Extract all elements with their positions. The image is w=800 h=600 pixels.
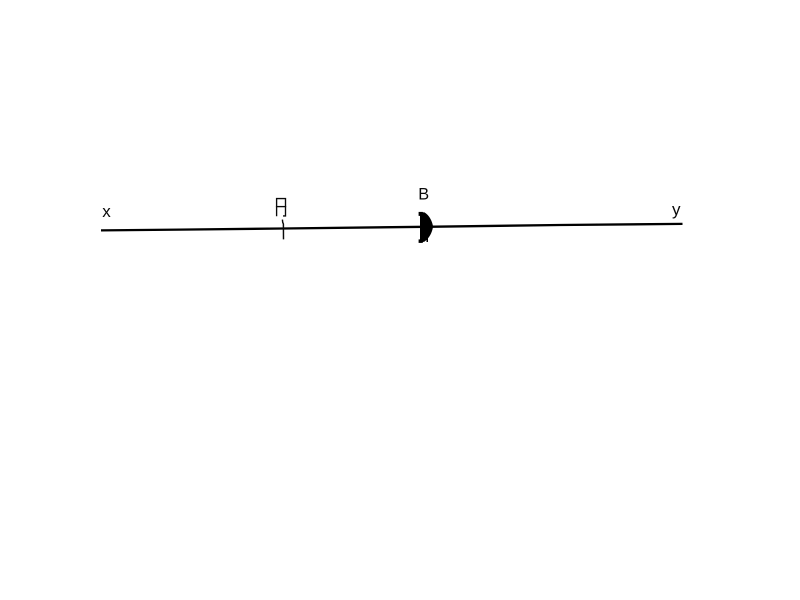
wire: line x-y: [101, 224, 683, 231]
point B: filled half-disc marker on line: [419, 212, 434, 243]
svg-text:B: B: [418, 186, 429, 204]
svg-text:x: x: [102, 202, 111, 221]
svg-text:y: y: [672, 200, 681, 219]
tick mark at point A on line: [282, 220, 283, 240]
node A: hand-drawn letter A (squared): [277, 199, 286, 216]
